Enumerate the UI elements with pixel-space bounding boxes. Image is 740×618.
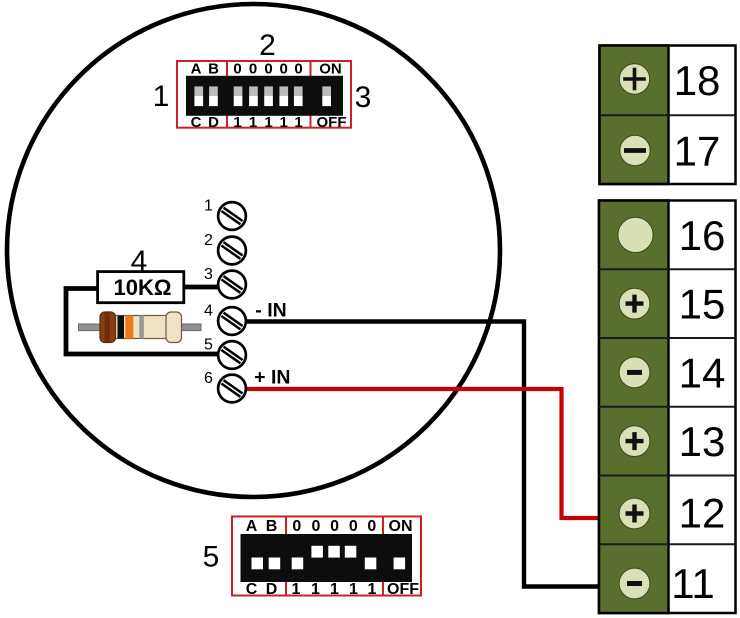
SW2 switch 5 actuator (365, 558, 377, 570)
svg-text:0: 0 (294, 61, 302, 78)
TB2 terminal 11 (-) (619, 568, 650, 599)
SW1 switch 1 actuator (234, 86, 243, 106)
TB1 terminal 17 (-) (620, 135, 650, 165)
svg-text:+ IN: + IN (254, 367, 290, 389)
svg-text:14: 14 (679, 349, 726, 396)
terminal 6 (218, 375, 246, 403)
SW1 switch 5 actuator (294, 86, 303, 106)
SW1 body (186, 76, 343, 116)
svg-text:4: 4 (131, 245, 148, 278)
svg-text:1: 1 (330, 581, 339, 598)
svg-text:6: 6 (204, 370, 213, 387)
svg-text:C: C (191, 114, 202, 131)
terminal block TB2 outline (599, 201, 736, 614)
resistor band brown stripe (105, 313, 111, 343)
svg-text:A: A (246, 518, 258, 535)
TB2 cell dividers (599, 269, 736, 544)
svg-text:1: 1 (349, 581, 358, 598)
resistor band orange (125, 316, 133, 339)
svg-text:2: 2 (259, 29, 276, 62)
svg-text:13: 13 (679, 418, 726, 465)
SW1 switch 4 actuator (279, 86, 288, 106)
svg-text:D: D (266, 581, 278, 598)
wire: resistor box left lead down to terminal 5 (66, 289, 222, 355)
resistor photo: right lead (180, 324, 201, 331)
svg-text:C: C (246, 581, 258, 598)
svg-text:A: A (191, 61, 202, 78)
svg-text:0: 0 (312, 518, 321, 535)
SW2 switch 2 actuator (311, 546, 323, 558)
svg-text:1: 1 (153, 80, 170, 113)
resistor photo: body (100, 312, 182, 343)
svg-text:1: 1 (280, 114, 288, 131)
svg-text:1: 1 (264, 114, 272, 131)
resistor photo: left lead (79, 324, 104, 331)
svg-text:2: 2 (204, 232, 213, 249)
SW1 switch A actuator (194, 86, 203, 106)
svg-text:1: 1 (292, 581, 301, 598)
svg-text:17: 17 (674, 128, 721, 175)
DIP switch SW2 red outline (232, 517, 421, 596)
SW2 switch 3 actuator (328, 546, 340, 558)
SW1 section divider right (310, 61, 312, 128)
svg-text:0: 0 (233, 61, 241, 78)
TB2 green terminal column (599, 201, 669, 614)
svg-text:15: 15 (679, 281, 726, 328)
svg-text:3: 3 (204, 266, 213, 283)
TB2 terminal 16 (plain) (618, 217, 653, 252)
wire: resistor box right lead to terminal 3 (184, 285, 226, 290)
svg-text:OFF: OFF (317, 114, 347, 131)
terminal 2 (218, 237, 246, 265)
TB2 terminal 15 (+) (619, 288, 650, 319)
svg-text:1: 1 (233, 114, 241, 131)
svg-text:4: 4 (204, 303, 213, 320)
SW2 section divider right (382, 517, 384, 596)
svg-text:0: 0 (264, 61, 272, 78)
TB1 terminal 18 (+) (619, 64, 649, 94)
svg-text:D: D (208, 114, 219, 131)
SW2 body (241, 534, 413, 582)
SW2 switch 4 actuator (345, 546, 357, 558)
terminal block TB1 outline (600, 46, 736, 185)
TB2 terminal 14 (-) (619, 357, 650, 388)
SW2 ON/OFF switch actuator (394, 558, 406, 570)
SW2 switch A actuator (252, 558, 264, 570)
SW1 switch B actuator (209, 86, 218, 106)
svg-text:0: 0 (280, 61, 288, 78)
svg-text:1: 1 (311, 581, 320, 598)
SW1 ON/OFF switch actuator (322, 86, 331, 106)
svg-text:OFF: OFF (387, 581, 419, 598)
svg-text:ON: ON (389, 518, 413, 535)
SW1 switch 3 actuator (264, 86, 273, 106)
DIP switch SW1 red outline (177, 61, 351, 128)
svg-text:0: 0 (249, 61, 257, 78)
svg-text:0: 0 (292, 518, 301, 535)
svg-text:1: 1 (294, 114, 302, 131)
SW2 section divider left (285, 517, 287, 596)
TB1 green terminal column (600, 46, 669, 185)
svg-text:0: 0 (367, 518, 376, 535)
svg-text:B: B (266, 518, 278, 535)
SW1 switch 2 actuator (249, 86, 258, 106)
SW2 switch B actuator (269, 558, 281, 570)
TB2 terminal 12 (+) (619, 498, 650, 529)
svg-text:5: 5 (203, 541, 220, 574)
svg-text:3: 3 (355, 81, 372, 114)
svg-text:0: 0 (349, 518, 358, 535)
svg-text:11: 11 (671, 560, 715, 607)
TB2 terminal 13 (+) (619, 426, 650, 457)
wire: terminal 4 (- IN) to terminal block pin 11 (243, 322, 600, 587)
transmitter housing circle (7, 4, 500, 497)
svg-text:1: 1 (249, 114, 257, 131)
svg-text:ON: ON (319, 61, 342, 78)
terminal 5 (218, 341, 246, 369)
svg-text:1: 1 (368, 581, 377, 598)
resistor band grey (139, 316, 144, 339)
resistor band black (118, 316, 125, 339)
TB1 cell divider (600, 114, 736, 116)
svg-text:0: 0 (330, 518, 339, 535)
svg-text:18: 18 (674, 57, 721, 104)
svg-text:1: 1 (204, 198, 213, 215)
svg-text:16: 16 (679, 212, 726, 259)
terminal 3 (218, 271, 246, 299)
resistor value box 10KΩ (98, 272, 184, 303)
svg-text:10KΩ: 10KΩ (114, 275, 172, 300)
terminal 4 (218, 307, 246, 335)
svg-text:12: 12 (679, 490, 726, 537)
svg-text:5: 5 (204, 337, 213, 354)
SW2 switch 1 actuator (292, 558, 304, 570)
SW1 section divider left (226, 61, 228, 128)
svg-text:B: B (208, 61, 219, 78)
terminal 1 (218, 202, 246, 230)
svg-text:- IN: - IN (255, 300, 286, 322)
wire: terminal 6 (+ IN) to terminal block pin 12 (243, 389, 600, 518)
